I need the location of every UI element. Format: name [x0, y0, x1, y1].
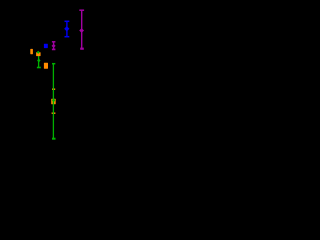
orange rect marker 1	[30, 49, 33, 54]
orange square marker (long series)	[51, 99, 56, 104]
orange error bar caps (long series)	[52, 89, 56, 113]
green long error bar	[52, 64, 56, 139]
blue error bar (upper point)	[65, 21, 70, 36]
blue diamond marker	[64, 26, 69, 31]
blue square marker	[44, 44, 48, 48]
magenta small error bar	[52, 42, 56, 50]
green diamond marker A (over orange)	[37, 51, 40, 54]
magenta diamond marker (small bar)	[52, 44, 56, 48]
orange rect marker 2	[36, 52, 41, 56]
magenta diamond marker (tall bar)	[79, 28, 84, 33]
orange rect marker 3	[44, 63, 48, 69]
green diamond marker (long series, over orange)	[52, 98, 55, 103]
magenta tall error bar	[79, 10, 84, 49]
green diamond marker B	[37, 58, 40, 62]
green lower-left error line	[37, 52, 41, 68]
